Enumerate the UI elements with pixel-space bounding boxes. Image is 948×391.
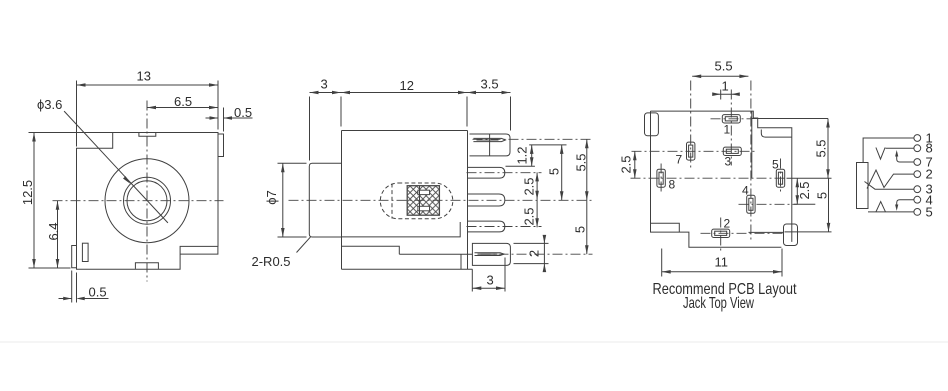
pin B (468, 194, 505, 206)
svg-text:1: 1 (724, 123, 731, 137)
internal bottom step (342, 246, 473, 269)
dim 0.5 top (206, 108, 253, 132)
col line pad 8 (660, 164, 662, 193)
outline left and bottom (651, 111, 782, 247)
dim 5.5 (586, 139, 588, 200)
pad 1 (722, 115, 740, 123)
dim 6.5 (147, 107, 218, 109)
col line pad 7 (690, 81, 692, 168)
jack body front outline (77, 133, 219, 270)
vertical centerline (146, 101, 148, 282)
separator line (0, 341, 948, 343)
contact V pin8 (876, 148, 885, 160)
dim 5 upper (561, 145, 563, 200)
terminal 7 circle (914, 159, 921, 166)
svg-text:5: 5 (573, 226, 588, 233)
svg-text:1.2: 1.2 (515, 146, 530, 164)
bottom-left slot (651, 223, 680, 232)
row line pads 7-3 (632, 150, 756, 152)
bottom pin housing (472, 243, 510, 265)
dim 1.2 (506, 145, 567, 166)
row line pads 8-5 main (631, 177, 787, 179)
svg-text:ϕ3.6: ϕ3.6 (37, 97, 62, 112)
internal barrel line (342, 222, 461, 237)
row line pad 4 (739, 203, 798, 205)
dim 3 bottom (472, 258, 505, 292)
wire pin2 tip spring (867, 170, 914, 189)
col line pad 2 upper (720, 90, 722, 100)
svg-text:0.5: 0.5 (234, 105, 252, 120)
terminal 2 circle (914, 171, 921, 178)
dim 2 (514, 236, 549, 272)
dim 11 bottom (662, 249, 782, 277)
dim 2.5 upper (536, 172, 538, 199)
inner body edge line (751, 111, 753, 178)
col line pad 2 lower (720, 218, 722, 251)
col line pad 5 (780, 159, 782, 193)
wire pin8 (886, 147, 914, 149)
svg-text:0.5: 0.5 (89, 285, 107, 300)
col line pads 1-3 (730, 90, 732, 166)
dim 3 barrel (310, 93, 342, 161)
svg-text:12: 12 (400, 78, 414, 93)
svg-text:5: 5 (926, 205, 933, 220)
dim 3.5 (467, 93, 511, 131)
top-left mount tab (645, 113, 659, 136)
dim 6.4 (57, 201, 59, 268)
svg-text:6.5: 6.5 (174, 94, 192, 109)
svg-text:3: 3 (487, 273, 494, 288)
top pin housing (470, 134, 511, 156)
dim 5.5 right (827, 119, 829, 179)
dim phi7 (278, 163, 307, 237)
bottom tab (135, 263, 158, 269)
svg-text:6.4: 6.4 (46, 222, 61, 240)
inner slot rectangle (82, 243, 88, 261)
terminal 1 circle (914, 135, 921, 142)
dim 2.5 left (634, 151, 636, 178)
svg-text:5.5: 5.5 (574, 153, 589, 171)
row line pads 1 (711, 118, 752, 120)
svg-text:2: 2 (926, 167, 933, 182)
pad 4 (747, 195, 755, 213)
svg-text:5: 5 (547, 168, 562, 175)
svg-text:7: 7 (676, 153, 683, 167)
svg-text:5: 5 (815, 192, 830, 199)
wire pin7 with up arrow (897, 153, 914, 163)
bottom blade centerline (481, 253, 593, 255)
pin A centerline (467, 172, 542, 174)
svg-text:4: 4 (742, 184, 749, 198)
pad 7 (687, 142, 695, 160)
dim 12 (341, 92, 467, 94)
svg-text:2.5: 2.5 (797, 181, 812, 199)
svg-text:2: 2 (724, 217, 731, 231)
svg-text:5.5: 5.5 (715, 59, 733, 74)
top notch (139, 133, 156, 136)
pin A (468, 167, 505, 178)
barrel phi7 (309, 163, 341, 237)
hidden cavity dashed stadium (380, 183, 453, 219)
terminal 4 circle (914, 196, 921, 203)
svg-text:3.5: 3.5 (481, 77, 499, 92)
sleeve bar (857, 163, 869, 209)
svg-text:8: 8 (669, 178, 676, 192)
right hook step (761, 130, 792, 138)
terminal 3 circle (914, 186, 921, 193)
svg-text:Jack Top View: Jack Top View (683, 295, 754, 312)
dim 5 lower (586, 200, 588, 254)
svg-text:11: 11 (715, 255, 729, 270)
svg-text:3: 3 (321, 77, 328, 92)
svg-text:3: 3 (725, 155, 732, 169)
pad 3 (723, 147, 741, 155)
outer circle (105, 159, 189, 243)
wire pin4 with down arrow (897, 200, 914, 208)
dim 13 (77, 81, 219, 147)
main centerline (289, 199, 593, 201)
pad 8 (657, 169, 665, 187)
pin C centerline (467, 226, 542, 228)
outline top and right (651, 111, 792, 242)
top-right side tab (218, 134, 223, 157)
top pin blade (473, 138, 505, 141)
top pin centerline (473, 138, 593, 140)
pad 5 (776, 169, 784, 187)
svg-text:13: 13 (137, 69, 151, 84)
bottom-right internal line (749, 231, 784, 233)
col line pad 4 (750, 81, 752, 242)
dim 2.5 lower (536, 200, 538, 228)
svg-text:12.5: 12.5 (20, 180, 35, 205)
stadium inner dash (391, 184, 393, 219)
pad 2 (712, 229, 730, 237)
svg-text:1: 1 (722, 79, 729, 94)
ring outer circle (124, 177, 171, 224)
wire pin1 to sleeve (863, 138, 914, 163)
dim 5 right (828, 178, 830, 232)
svg-text:2.5: 2.5 (619, 155, 634, 173)
dim 2.5 right (796, 178, 798, 204)
horizontal centerline (53, 200, 224, 202)
svg-text:2: 2 (527, 250, 542, 257)
svg-text:8: 8 (926, 141, 933, 156)
bottom pin blade (475, 253, 505, 256)
bottom-right ledge (180, 247, 218, 254)
row line pad 2 (701, 232, 784, 234)
wire pin3 (865, 182, 914, 190)
svg-text:5: 5 (772, 158, 779, 172)
contact triangle pin5 (876, 202, 886, 212)
main body block (342, 131, 473, 270)
contact block divider (419, 186, 421, 216)
dim 1 top (714, 93, 739, 95)
leader phi3.6 (64, 111, 168, 223)
dim 0.5 bottom (59, 271, 109, 303)
dim 12.5 (29, 133, 113, 269)
dim 5.5 top (692, 75, 748, 77)
svg-text:ϕ7: ϕ7 (264, 190, 279, 205)
left outer tab (72, 246, 77, 268)
contact block hatched (407, 186, 439, 216)
wire pin5 (868, 211, 914, 213)
terminal 5 circle (914, 209, 921, 216)
contact block steps (418, 190, 430, 194)
svg-text:2.5: 2.5 (522, 177, 537, 195)
pin C (468, 221, 505, 232)
bottom-right mount tab (784, 224, 798, 246)
svg-text:2-R0.5: 2-R0.5 (252, 254, 291, 269)
svg-text:5.5: 5.5 (814, 139, 829, 157)
ring inner circle phi3.6 (127, 181, 167, 221)
top pin divider (489, 134, 491, 156)
terminal 8 circle (914, 145, 921, 152)
svg-text:2.5: 2.5 (522, 207, 537, 225)
